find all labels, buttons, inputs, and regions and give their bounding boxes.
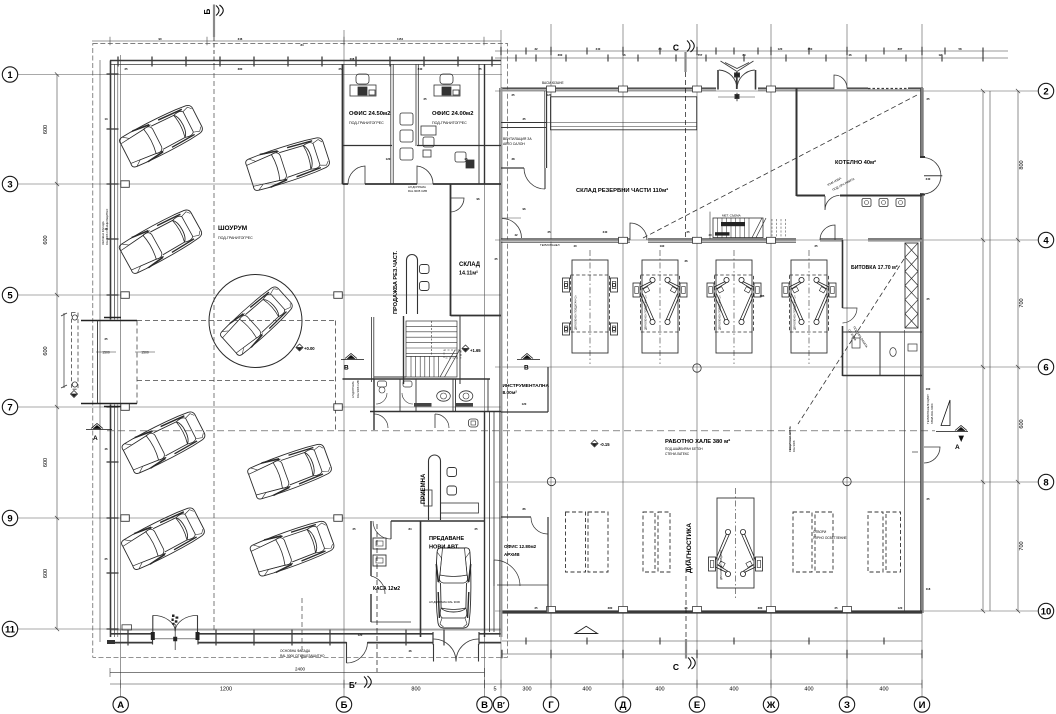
grid intersection circle E6 [693, 364, 701, 372]
car 7 [249, 518, 336, 578]
skylight opening [868, 512, 883, 572]
svg-text:240: 240 [596, 47, 601, 51]
svg-text:96: 96 [476, 197, 480, 201]
north wall pilasters [547, 86, 556, 92]
wall 240 east part [820, 240, 843, 242]
svg-text:А: А [93, 435, 98, 442]
skylight opening [566, 512, 586, 572]
svg-text:RAL 9006 СЛЪНЦЕЗАЩИТНО: RAL 9006 СЛЪНЦЕЗАЩИТНО [280, 654, 325, 658]
grid bubble Б [336, 697, 351, 712]
svg-text:25: 25 [124, 67, 128, 71]
grid bubble 9 [2, 510, 17, 525]
turntable circle [209, 275, 302, 368]
svg-text:ДВУКОЛОНЕН ПОВДИГАЧ 4.2т: ДВУКОЛОНЕН ПОВДИГАЧ 4.2т [719, 294, 722, 330]
svg-text:80: 80 [658, 47, 662, 51]
svg-text:ОФИС 24.00м2: ОФИС 24.00м2 [432, 111, 473, 117]
workshop north wall gray [501, 89, 716, 91]
grid bubble Г [543, 697, 558, 712]
exterior door east wall upper [924, 158, 941, 195]
level +0.00 [296, 344, 303, 351]
door wall240 [820, 225, 835, 240]
section marker A left [86, 424, 112, 430]
work bay at 660 [641, 250, 680, 364]
kasa counter [373, 538, 386, 549]
axis line Е [696, 24, 698, 697]
porch step [122, 625, 132, 630]
section marker C top [686, 40, 695, 240]
svg-text:25: 25 [684, 606, 688, 610]
svg-text:НОВИ АВТ.: НОВИ АВТ. [429, 545, 460, 551]
kotelno door [825, 196, 840, 211]
arhiv window [497, 584, 548, 586]
svg-text:120: 120 [358, 633, 363, 637]
skylight opening [815, 512, 833, 572]
stair treads [406, 321, 457, 377]
car 6 [120, 504, 207, 571]
axis line 6 [495, 366, 1039, 368]
pads at 590 [563, 278, 618, 335]
sklad south wall [451, 315, 502, 317]
grid bubble И [914, 697, 929, 712]
instrumentalna walls [547, 367, 549, 412]
svg-text:ПОД-ШАЙБИРАН БЕТОН: ПОД-ШАЙБИРАН БЕТОН [665, 447, 703, 451]
south facade band upper [110, 633, 501, 635]
facade band caps [153, 632, 480, 645]
car 3 [244, 135, 331, 193]
axis line 10 [495, 610, 1039, 612]
east wall door opening [919, 158, 926, 193]
work bay at 809 [790, 250, 829, 364]
sklad door [451, 198, 465, 212]
svg-text:ДВУКОЛОНЕН ПОВДИГАЧ: ДВУКОЛОНЕН ПОВДИГАЧ [720, 550, 723, 580]
hatched shaft [905, 243, 918, 328]
svg-text:84: 84 [408, 527, 412, 531]
svg-text:8: 8 [1043, 477, 1048, 488]
workshop east wall [920, 88, 923, 613]
svg-text:СТЕНИ-ЛАТЕКС: СТЕНИ-ЛАТЕКС [665, 452, 690, 456]
svg-text:9: 9 [7, 513, 12, 524]
toilet south wall [370, 411, 501, 413]
south wall pilasters [547, 607, 556, 613]
svg-text:ОФИС 24.50м2: ОФИС 24.50м2 [349, 111, 390, 117]
axis line Г [550, 24, 552, 697]
car 1 [118, 102, 205, 169]
axis line 9 [17, 517, 502, 519]
office south wall [343, 183, 349, 185]
svg-text:84: 84 [742, 53, 746, 57]
svg-text:Б′: Б′ [349, 681, 357, 690]
grid bubble 10 [1038, 603, 1053, 618]
svg-text:58: 58 [958, 47, 962, 51]
car handover exit double door [433, 644, 435, 662]
toilet west wall [373, 379, 375, 430]
stairblock south wall [374, 376, 406, 378]
grid bubble 2 [1038, 83, 1053, 98]
svg-text:400: 400 [729, 687, 738, 693]
svg-text:385: 385 [760, 294, 765, 298]
bottom dim line axes [110, 683, 922, 685]
workshop entrance doors [717, 70, 719, 90]
grid bubble 6 [1038, 359, 1053, 374]
west wall opening [106, 320, 120, 405]
workshop west wall [501, 88, 503, 637]
axis line Д [622, 24, 624, 697]
west curtain wall [110, 61, 112, 638]
grid intersection circle Z8 [843, 477, 851, 485]
svg-text:887: 887 [898, 47, 903, 51]
kasa door [390, 521, 392, 539]
svg-text:+1.65: +1.65 [470, 348, 481, 353]
svg-text:+0.00: +0.00 [304, 346, 315, 351]
svg-text:600: 600 [43, 569, 49, 578]
porch fixtures [72, 315, 77, 320]
section marker A right [936, 400, 968, 441]
office partition 1 [390, 64, 392, 184]
warehouse south wall gray [501, 240, 630, 242]
south facade thin line [110, 629, 501, 631]
kasa partition [420, 521, 422, 637]
svg-text:1: 1 [7, 70, 13, 81]
grid bubble З [839, 697, 854, 712]
svg-text:С: С [673, 662, 679, 672]
grid bubble Е [689, 697, 704, 712]
lift at 809 [782, 277, 836, 324]
office2 desk [434, 74, 460, 96]
diagnostics bay [717, 488, 754, 598]
V2 corridor wall b [493, 412, 495, 632]
svg-text:Е: Е [694, 700, 700, 711]
urinal fixture [469, 419, 479, 427]
svg-text:208: 208 [350, 57, 355, 61]
svg-text:8.00м²: 8.00м² [503, 390, 518, 396]
svg-text:600: 600 [43, 125, 49, 134]
workshop entrance canopy V [721, 61, 754, 72]
small office fixture [455, 152, 474, 168]
svg-text:ШОУРУМ: ШОУРУМ [218, 225, 247, 232]
svg-text:25: 25 [926, 97, 930, 101]
door top wall right [834, 75, 847, 89]
level +1.65 [462, 345, 469, 352]
svg-text:А: А [117, 700, 124, 711]
meeting chairs column [400, 113, 436, 160]
svg-text:АРХИВ: АРХИВ [504, 552, 520, 557]
svg-text:10: 10 [1041, 606, 1052, 617]
svg-text:600: 600 [43, 458, 49, 467]
svg-text:757: 757 [698, 53, 703, 57]
lift at 660 [633, 277, 687, 324]
svg-text:С: С [673, 43, 679, 53]
office1 desk [350, 74, 376, 96]
work bay at 590 [571, 250, 610, 364]
grid bubble В′ [493, 697, 508, 712]
grid bubble 11 [2, 621, 17, 636]
grid intersection circle G8 [547, 477, 555, 485]
bottom dim line right bldg [502, 640, 922, 642]
section A dashed line [107, 430, 935, 432]
svg-text:RAL 9006 СИВ: RAL 9006 СИВ [356, 380, 360, 398]
svg-text:46: 46 [104, 227, 108, 231]
svg-text:АЛ.ДОГРАМА: АЛ.ДОГРАМА [351, 381, 355, 398]
svg-text:300: 300 [522, 687, 531, 693]
metal stair [713, 218, 763, 238]
axis line 4 [495, 239, 1039, 241]
left dim line inner [99, 60, 101, 642]
svg-text:ДИАГНОСТИКА: ДИАГНОСТИКА [686, 523, 693, 573]
svg-text:600: 600 [43, 235, 49, 244]
svg-text:400: 400 [655, 687, 664, 693]
toilet partitions [399, 379, 401, 412]
svg-text:25: 25 [494, 257, 498, 261]
svg-text:ПРЕДАВАНЕ: ПРЕДАВАНЕ [429, 536, 464, 542]
svg-text:ДВУКОЛОНЕН ПОВДИГАЧ 4.2т: ДВУКОЛОНЕН ПОВДИГАЧ 4.2т [794, 294, 797, 330]
bitovka west wall [842, 240, 844, 308]
grid bubble Ж [763, 697, 778, 712]
section B2 dashed [301, 598, 303, 660]
office door 2 [417, 166, 433, 184]
svg-text:ДВУКОЛОНЕН ПОВДИГАЧ 4.2т: ДВУКОЛОНЕН ПОВДИГАЧ 4.2т [645, 294, 648, 330]
counter chairs [420, 265, 430, 274]
vestibule bottom line [81, 403, 137, 405]
entrance ornament [172, 615, 179, 625]
grid bubble 4 [1038, 232, 1053, 247]
svg-text:14.11м²: 14.11м² [459, 271, 478, 277]
svg-text:ОСНОВНА ФАСАДА: ОСНОВНА ФАСАДА [280, 649, 311, 653]
warehouse band line [501, 122, 697, 124]
top dim lines right bldg [495, 50, 1008, 52]
toilet north wall [374, 378, 490, 380]
svg-text:ДВУКОЛОНЕН ПОВДИГАЧ 4.2т: ДВУКОЛОНЕН ПОВДИГАЧ 4.2т [575, 294, 578, 330]
axis line 3 [17, 183, 502, 185]
north curtain wall [110, 60, 501, 62]
ofis arhiv walls [547, 517, 549, 612]
avto salon band wall [501, 122, 546, 124]
svg-text:ГОРНО ОСВЕТЛЕНИЕ: ГОРНО ОСВЕТЛЕНИЕ [813, 536, 847, 540]
svg-text:Б: Б [203, 9, 212, 15]
svg-text:25: 25 [338, 67, 342, 71]
grid bubble 3 [2, 176, 17, 191]
svg-text:МЕТ. СЪЕМА: МЕТ. СЪЕМА [722, 214, 741, 218]
sklad west wall [450, 184, 452, 316]
right dim lines [982, 91, 984, 611]
ramp diagonal down [798, 259, 904, 424]
svg-text:32: 32 [534, 47, 538, 51]
handover east wall [484, 412, 486, 637]
svg-text:120: 120 [547, 93, 552, 97]
car 4 [120, 408, 207, 475]
toilet fixtures [437, 391, 451, 401]
stall door arcs [376, 393, 387, 404]
grid bubble 7 [2, 399, 17, 414]
counter U [407, 255, 418, 315]
svg-text:90: 90 [158, 37, 162, 41]
svg-text:АВТО САЛОН: АВТО САЛОН [503, 142, 525, 146]
skylight opening [588, 512, 608, 572]
section marker B bottom [364, 524, 377, 688]
work bay at 734 [715, 250, 754, 364]
svg-text:11: 11 [5, 624, 16, 635]
svg-text:-0.15: -0.15 [600, 442, 610, 447]
svg-text:800: 800 [1019, 160, 1025, 169]
office door 1 [348, 166, 365, 184]
svg-text:1500: 1500 [141, 351, 149, 355]
dashed interior zone lines [137, 321, 336, 431]
svg-text:16: 16 [622, 53, 626, 57]
svg-text:600: 600 [1019, 419, 1025, 428]
svg-text:ПОД-ГРАНИТОГРЕС: ПОД-ГРАНИТОГРЕС [218, 236, 253, 240]
svg-text:25: 25 [104, 557, 108, 561]
left dim line outer [56, 75, 58, 630]
svg-text:4: 4 [1043, 235, 1049, 246]
svg-text:ГАМА RAL 9006: ГАМА RAL 9006 [930, 403, 934, 424]
workshop south wall [501, 610, 922, 613]
office west wall [342, 64, 344, 184]
svg-text:40: 40 [708, 233, 712, 237]
svg-text:ОКАЧЕНА ФАСАДА: ОКАЧЕНА ФАСАДА [101, 221, 105, 245]
svg-text:ОФИС 12.80м2: ОФИС 12.80м2 [504, 544, 537, 549]
warehouse mezzanine rect [551, 97, 697, 130]
svg-text:СКЛАД РЕЗЕРВНИ ЧАСТИ 110м²: СКЛАД РЕЗЕРВНИ ЧАСТИ 110м² [576, 187, 668, 194]
axis line 11 [17, 628, 502, 630]
svg-text:700: 700 [1019, 541, 1025, 550]
kasa west wall [370, 521, 372, 576]
svg-text:25: 25 [474, 527, 478, 531]
main entrance double door [152, 615, 154, 639]
svg-text:800: 800 [411, 687, 420, 693]
svg-text:700: 700 [1019, 298, 1025, 307]
svg-text:З: З [844, 700, 850, 711]
skylight opening [793, 512, 812, 572]
svg-text:А: А [955, 444, 960, 451]
svg-text:RAL 9006: RAL 9006 [792, 440, 796, 452]
svg-text:25: 25 [926, 297, 930, 301]
svg-text:346: 346 [238, 37, 243, 41]
grid bubble В [477, 697, 492, 712]
svg-text:84: 84 [300, 43, 304, 47]
svg-text:240: 240 [926, 177, 931, 181]
svg-text:380: 380 [758, 606, 763, 610]
svg-text:ПРИЕМНА: ПРИЕМНА [421, 473, 427, 504]
svg-text:86: 86 [522, 507, 526, 511]
svg-text:25: 25 [464, 157, 468, 161]
svg-text:3: 3 [7, 179, 12, 190]
svg-text:35: 35 [522, 117, 526, 121]
svg-text:И: И [919, 700, 926, 711]
svg-text:2: 2 [1043, 86, 1048, 97]
sw corner cap [107, 640, 115, 644]
svg-text:190: 190 [660, 244, 665, 248]
svg-text:38: 38 [511, 157, 515, 161]
mezzanine inner line [551, 126, 697, 128]
warehouse south wall [501, 238, 630, 240]
svg-text:240: 240 [603, 230, 608, 234]
svg-text:Б: Б [341, 700, 348, 711]
svg-text:ПОД-ГРАНИТОГРЕС: ПОД-ГРАНИТОГРЕС [349, 121, 384, 125]
office mid wall [343, 145, 393, 147]
axis line 7 [17, 406, 502, 408]
axis line Ж [770, 24, 772, 697]
svg-text:1200: 1200 [220, 687, 232, 693]
office east wall inner [478, 64, 480, 184]
priemna counter [429, 455, 441, 520]
svg-text:ВАСМ.ЮЗАНЕ: ВАСМ.ЮЗАНЕ [542, 81, 564, 85]
svg-text:АЛ.ДОГРАМА RAL 9006: АЛ.ДОГРАМА RAL 9006 [429, 600, 460, 604]
entrance direction triangle [575, 626, 598, 633]
svg-text:RAL 9005 СИВ: RAL 9005 СИВ [408, 189, 427, 193]
section marker V right [517, 354, 540, 360]
kotelno south wall [797, 195, 826, 197]
svg-text:12: 12 [938, 53, 942, 57]
axis line А [120, 55, 122, 697]
svg-text:БИТОВКА 17.70 м²: БИТОВКА 17.70 м² [851, 265, 898, 271]
svg-text:120: 120 [522, 402, 527, 406]
entrance dim [718, 96, 755, 98]
section B dashed [213, 65, 215, 630]
V2 corridor wall a [489, 412, 491, 632]
vestibule top line [81, 320, 137, 322]
svg-text:46: 46 [104, 447, 108, 451]
svg-text:25: 25 [547, 230, 551, 234]
svg-text:400: 400 [879, 687, 888, 693]
svg-text:25: 25 [511, 93, 515, 97]
svg-text:380: 380 [238, 67, 243, 71]
exterior door east wall lower [924, 447, 940, 463]
svg-text:25: 25 [926, 497, 930, 501]
svg-text:В: В [524, 365, 529, 372]
wall end caps [104, 318, 121, 407]
svg-text:380: 380 [608, 606, 613, 610]
bottom dim line left bldg overall [110, 672, 485, 674]
svg-text:В: В [344, 365, 349, 372]
exit door south [346, 642, 348, 663]
avto salon room east wall [546, 91, 548, 168]
svg-text:25: 25 [104, 337, 108, 341]
svg-text:42: 42 [514, 233, 518, 237]
skylight opening [886, 512, 901, 572]
svg-text:400: 400 [582, 687, 591, 693]
svg-text:РАБОТНО ХАЛЕ 380 м²: РАБОТНО ХАЛЕ 380 м² [665, 438, 730, 445]
svg-text:1154: 1154 [397, 37, 404, 41]
svg-text:400: 400 [804, 687, 813, 693]
axis line З [846, 24, 848, 697]
car 8 [436, 548, 471, 628]
grid bubble 1 [2, 67, 17, 82]
level -0.15 [591, 440, 598, 447]
car turntable [218, 284, 295, 358]
corridor door arc [494, 560, 520, 586]
svg-text:25: 25 [423, 97, 427, 101]
svg-text:40: 40 [573, 244, 577, 248]
svg-text:Г: Г [548, 700, 554, 711]
showroom-office lower wall [343, 378, 375, 380]
svg-text:25: 25 [534, 606, 538, 610]
car 2 [117, 206, 204, 275]
interior glazing wall [371, 317, 373, 382]
svg-text:240: 240 [418, 67, 423, 71]
south facade band lower [110, 642, 501, 644]
arhiv door [531, 518, 548, 535]
svg-text:360: 360 [558, 53, 563, 57]
stair walls [403, 316, 405, 384]
axis line 5 [17, 294, 502, 296]
svg-text:120: 120 [898, 606, 903, 610]
avto salon south wall + door [501, 167, 524, 169]
inner line near I wall [904, 330, 906, 611]
porch dim arrow line [61, 313, 67, 388]
skylight opening [658, 512, 670, 572]
svg-text:ТЕРМОПАНЕЛ: ТЕРМОПАНЕЛ [540, 243, 560, 247]
svg-text:СКЛАД: СКЛАД [459, 262, 481, 268]
svg-text:46: 46 [848, 53, 852, 57]
